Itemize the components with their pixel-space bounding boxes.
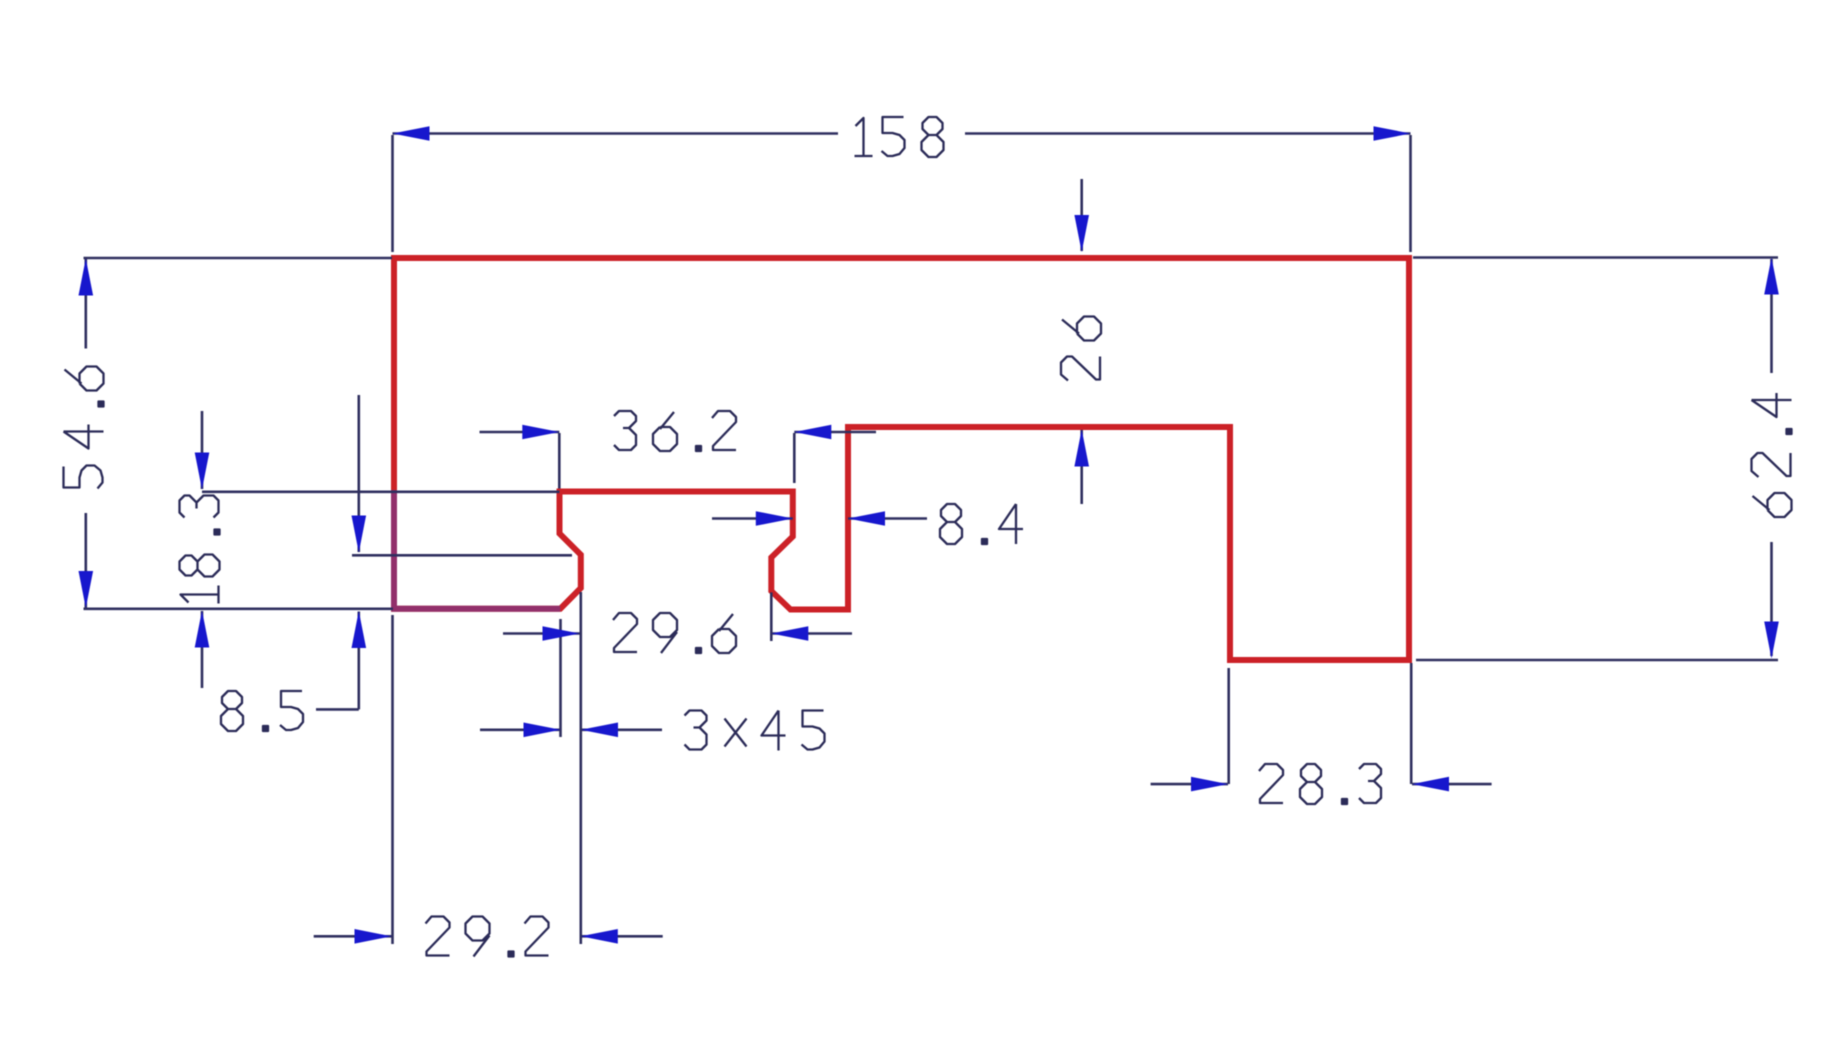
dim text 8.5 [221, 691, 303, 731]
3x45 left ext [559, 619, 562, 737]
dim text 29.2 [426, 917, 549, 957]
62.4 bottom connector [1416, 659, 1778, 662]
29.2 right tail [581, 935, 663, 938]
dim text 36.2 [614, 411, 736, 451]
158 left ext line [391, 135, 394, 252]
profile left edge lower overlap (purple: red over blue ext line) [391, 490, 397, 609]
neck-top extension line y=555 [352, 554, 572, 557]
29.2 left ext [391, 615, 394, 944]
36.2 right ext [793, 433, 796, 483]
54.6 dim line bottom seg [85, 513, 88, 608]
36.2 right arrow [794, 425, 831, 440]
62.4 dim top seg [1770, 259, 1773, 373]
54.6 top extension line [84, 257, 393, 260]
62.4 top arrow [1764, 258, 1779, 295]
profile bottom-left edge overlap (purple) [391, 606, 560, 612]
18.3 dim bottom seg [201, 611, 204, 688]
29.6 right arrow [771, 626, 808, 641]
8.4 left tail [712, 517, 793, 520]
28.3 right tail [1412, 783, 1492, 786]
54.6 bottom arrow [79, 571, 94, 608]
dim text 158 [855, 117, 944, 157]
28.3 left tail [1151, 783, 1228, 786]
26 bottom arrow [1074, 430, 1089, 467]
8.5 leader [316, 708, 359, 711]
long ext line x=581 [579, 592, 582, 944]
54.6 bottom extension line [84, 607, 394, 610]
3x45 left arrow [524, 723, 561, 738]
29.6 left tail [503, 632, 580, 635]
36.2 left ext [558, 433, 561, 489]
54.6 top arrow [79, 259, 94, 296]
dim text 8.4 [940, 504, 1023, 544]
26 dim top seg [1080, 179, 1083, 251]
28.3 left arrow [1191, 777, 1228, 792]
29.2 left arrow [355, 929, 392, 944]
158 left arrow [393, 126, 430, 141]
dim text 54.6 (rotated) [64, 367, 104, 489]
62.4 dim bottom seg [1770, 542, 1773, 656]
8.5 bottom arrow [352, 611, 367, 648]
28.3 right ext [1410, 663, 1413, 784]
28.3 left ext [1227, 668, 1230, 784]
8.5 dim top seg [357, 395, 360, 552]
8.4 right arrow [848, 511, 885, 526]
158 right ext line [1409, 135, 1412, 252]
3x45 left tail [480, 728, 561, 731]
3x45 right tail [581, 728, 662, 731]
36.2 left tail [480, 431, 560, 434]
36.2 left arrow [522, 425, 559, 440]
profile outline (red part cross-section) [394, 258, 1409, 660]
dim text 28.3 [1259, 764, 1381, 804]
8.5 dim bottom seg [357, 612, 360, 710]
158 dim line right part [965, 132, 1411, 135]
158 dim line left part [393, 132, 839, 135]
62.4 bottom arrow [1764, 622, 1779, 659]
158 right arrow [1374, 126, 1411, 141]
8.4 right tail [848, 517, 927, 520]
dim text 18.3 (rotated) [180, 496, 220, 604]
8.5 top arrow [352, 516, 367, 553]
26 dim bottom seg [1080, 430, 1083, 504]
18.3 bottom arrow [195, 611, 210, 648]
29.6 left arrow [543, 626, 580, 641]
dim text 26 (rotated) [1061, 317, 1101, 381]
36.2 right tail [794, 431, 876, 434]
8.4 left arrow [756, 511, 793, 526]
26 top arrow [1074, 215, 1089, 252]
dim text 29.6 [613, 613, 736, 653]
29.2 left tail [314, 935, 392, 938]
slot-top extension line y=492 [202, 490, 560, 493]
3x45 right arrow [581, 723, 618, 738]
54.6 dim line top seg [85, 259, 88, 349]
18.3 dim top seg [201, 411, 204, 489]
62.4 top connector [1413, 256, 1778, 259]
29.2 right arrow [581, 929, 618, 944]
28.3 right arrow [1412, 777, 1449, 792]
18.3 top arrow [195, 453, 210, 490]
dim text 62.4 (rotated) [1752, 393, 1792, 517]
29.6 right ext [770, 592, 773, 641]
29.6 right tail [771, 632, 852, 635]
dim text 3x45 [685, 711, 825, 751]
